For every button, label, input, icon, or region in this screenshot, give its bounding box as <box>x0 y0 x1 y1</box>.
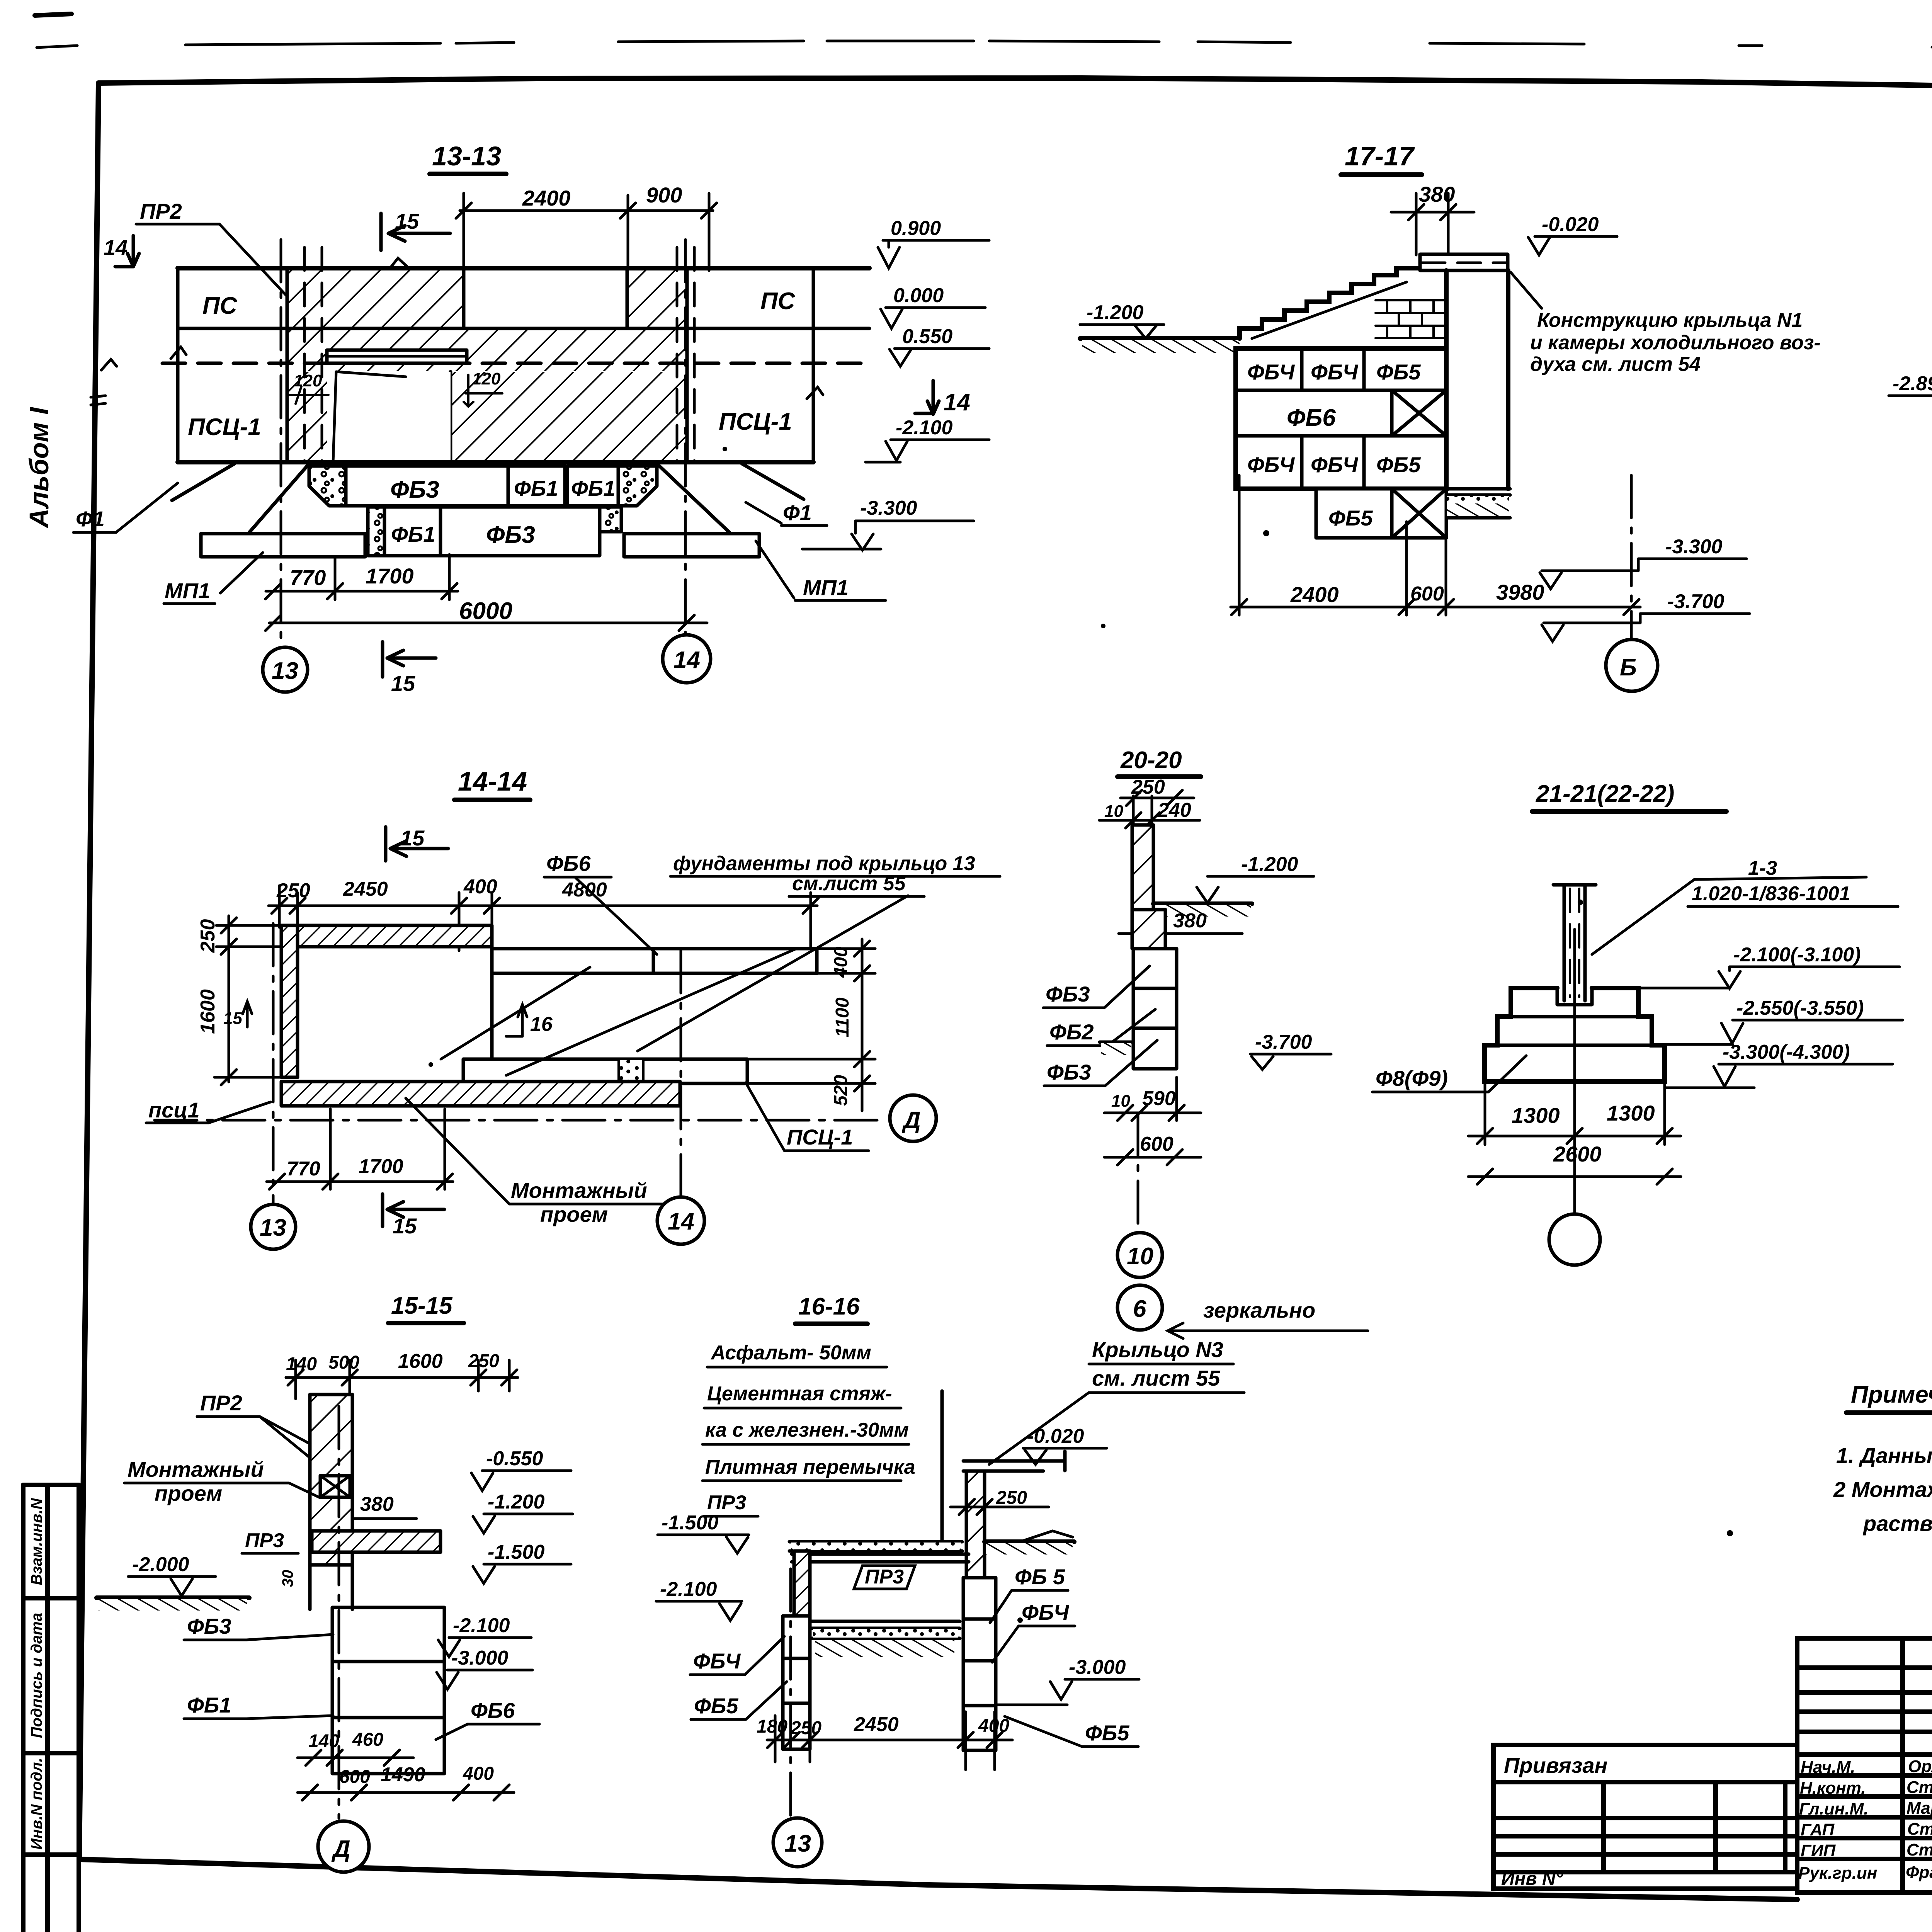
wall 15-15 hatched <box>310 1395 352 1565</box>
svg-text:1.020-1/836-1001: 1.020-1/836-1001 <box>1692 883 1850 905</box>
axis circle D (14-14) <box>890 1095 936 1141</box>
section cut mark 15 top <box>381 209 450 250</box>
svg-text:400: 400 <box>831 947 851 978</box>
stepped foundation (21-21) <box>1485 988 1665 1082</box>
svg-text:-2.100: -2.100 <box>660 1578 717 1600</box>
section mark 15 small left <box>223 1002 252 1028</box>
block row1 pebble right <box>618 466 657 506</box>
svg-text:псц1: псц1 <box>148 1098 200 1122</box>
svg-text:ФБЧ: ФБЧ <box>1247 360 1295 384</box>
label pscl left <box>146 1098 270 1123</box>
svg-text:Столярова: Столярова <box>1906 1840 1932 1859</box>
svg-text:ка с железнен.-30мм: ка с железнен.-30мм <box>705 1419 909 1441</box>
level mark -2.100(-3.100) (21-21) <box>1640 944 1900 988</box>
svg-text:1600: 1600 <box>398 1350 443 1372</box>
block FB3 row2 <box>440 507 600 556</box>
svg-text:см. лист 55: см. лист 55 <box>1092 1366 1220 1390</box>
block FB1 row1 <box>508 466 565 506</box>
dim 120 left <box>288 371 328 404</box>
axis circle D (15-15) <box>318 1821 369 1872</box>
axis dash 13 (14-14) <box>272 923 275 1202</box>
label FB6 (14-14) <box>544 851 611 877</box>
break mark on top line <box>384 258 409 275</box>
level line 0.000 <box>178 327 869 330</box>
svg-text:-1.200: -1.200 <box>1087 301 1144 324</box>
block FB1b row1 <box>567 466 618 506</box>
signature table roles <box>1798 1758 1877 1883</box>
section title 15-15 <box>388 1293 464 1323</box>
break mark left edge <box>171 347 186 359</box>
level mark -1.500 (16-16) <box>658 1512 749 1553</box>
svg-text:3980: 3980 <box>1496 580 1544 604</box>
axis line (21-21) <box>1573 929 1576 1213</box>
ground line right (20-20) <box>1153 904 1252 917</box>
dim 380 (15-15) <box>355 1493 417 1519</box>
label FB1 (15-15) <box>184 1693 333 1719</box>
svg-text:-3.000: -3.000 <box>451 1647 509 1669</box>
svg-text:Д: Д <box>331 1836 350 1862</box>
label PR3 box in plan (16-16) <box>854 1566 915 1589</box>
note Cement screed line1 <box>704 1383 901 1408</box>
svg-text:Сталярова: Сталярова <box>1906 1778 1932 1797</box>
svg-text:1-3: 1-3 <box>1748 857 1777 879</box>
svg-text:2450: 2450 <box>854 1713 899 1736</box>
ground line left <box>1080 336 1240 341</box>
svg-text:ПР2: ПР2 <box>200 1391 242 1415</box>
svg-text:ПСЦ-1: ПСЦ-1 <box>787 1125 853 1149</box>
svg-text:15-15: 15-15 <box>391 1293 453 1319</box>
svg-text:770: 770 <box>287 1158 320 1180</box>
svg-text:-3.700: -3.700 <box>1667 590 1725 613</box>
break mark on dash level line left <box>101 359 117 370</box>
left stamp rotated label Vzam.inv.N <box>28 1498 45 1585</box>
axis circle 10 <box>1117 1233 1162 1277</box>
svg-text:ГАП: ГАП <box>1801 1820 1835 1839</box>
left wall hatched (plan) <box>281 925 298 1077</box>
svg-text:-2.550(-3.550): -2.550(-3.550) <box>1736 997 1864 1019</box>
FB6 strip in plan <box>492 949 817 973</box>
svg-text:6: 6 <box>1133 1296 1146 1322</box>
svg-text:фундаменты под крыльцо 13: фундаменты под крыльцо 13 <box>673 852 975 875</box>
axis dash line 13 <box>280 240 282 646</box>
svg-text:Асфальт- 50мм: Асфальт- 50мм <box>710 1342 871 1364</box>
svg-text:ФБ3: ФБ3 <box>1047 1060 1091 1084</box>
left stamp column boxes <box>23 1485 79 1932</box>
svg-text:зеркально: зеркально <box>1203 1298 1315 1322</box>
svg-text:-3.300(-4.300): -3.300(-4.300) <box>1723 1041 1850 1063</box>
svg-text:380: 380 <box>1173 910 1207 932</box>
svg-text:13: 13 <box>784 1830 811 1857</box>
block FB1 row2 <box>384 507 440 556</box>
level mark -2.890 <box>1889 372 1932 417</box>
label FB3 (15-15) <box>184 1614 333 1640</box>
ground hatch left of column (20-20) <box>1100 1042 1132 1055</box>
svg-text:1700: 1700 <box>359 1155 403 1178</box>
svg-text:-2.100: -2.100 <box>896 417 953 439</box>
svg-text:6000: 6000 <box>459 598 512 624</box>
formwork dashed pair right <box>677 247 694 461</box>
break mark right edge <box>807 387 823 399</box>
axis circle 6 <box>1117 1285 1162 1330</box>
svg-text:120: 120 <box>294 371 322 390</box>
svg-text:13-13: 13-13 <box>432 141 501 171</box>
axis circle 13 (14-14) <box>251 1204 296 1249</box>
level mark -3.700 (20-20) <box>1250 1031 1331 1070</box>
svg-text:460: 460 <box>352 1730 383 1750</box>
level mark -1.200 (20-20) <box>1197 853 1314 903</box>
right vertical dim line (400 1100 520) <box>747 939 875 1111</box>
svg-text:МП1: МП1 <box>803 575 849 600</box>
left block column (16-16) <box>783 1616 810 1749</box>
section title 17-17 <box>1341 141 1422 175</box>
svg-text:Конструкцию крыльца N1: Конструкцию крыльца N1 <box>1537 309 1803 332</box>
svg-text:Инв.N подл.: Инв.N подл. <box>28 1758 45 1850</box>
svg-text:ФБ5: ФБ5 <box>1376 360 1421 384</box>
svg-text:Ф1: Ф1 <box>76 507 105 531</box>
svg-text:ПР3: ПР3 <box>865 1566 904 1588</box>
svg-text:Примечания: Примечания <box>1851 1381 1932 1408</box>
section arrow 14 right <box>915 381 970 416</box>
level mark -3.300(-4.300) (21-21) <box>1666 1041 1893 1088</box>
bottom dim line 17-17 <box>1231 475 1640 615</box>
svg-text:2 Монтажный проем заложить: 2 Монтажный проем заложить кирпичом на г… <box>1833 1477 1932 1502</box>
drawing frame left border <box>79 83 99 1859</box>
label PR3 and slab (15-15) <box>242 1529 440 1553</box>
label FB3 lower (20-20) <box>1044 1040 1157 1086</box>
row1 col dividers <box>1302 349 1364 390</box>
dim line 770/1700 <box>265 554 458 600</box>
porch slab top (16-16) <box>963 1451 1065 1471</box>
level mark -1.200 left <box>1080 301 1164 338</box>
svg-text:ФБ6: ФБ6 <box>471 1698 515 1723</box>
svg-text:Ф1: Ф1 <box>783 500 812 525</box>
svg-text:Взам.инв.N: Взам.инв.N <box>28 1498 45 1585</box>
wall bottom line <box>178 460 813 464</box>
svg-text:15: 15 <box>400 826 425 850</box>
svg-text:120: 120 <box>472 369 501 388</box>
level mark 0.550 <box>889 325 989 366</box>
svg-text:380: 380 <box>360 1493 394 1515</box>
label F8(F9) <box>1372 1056 1526 1092</box>
row dividers <box>1236 390 1446 436</box>
svg-text:Инв N°: Инв N° <box>1501 1869 1563 1889</box>
dim 600 (20-20) <box>1104 1133 1201 1165</box>
row2 FB6 <box>1287 390 1392 436</box>
top dimension line with ticks <box>456 193 717 270</box>
svg-text:ФБЧ: ФБЧ <box>1311 360 1359 384</box>
porch edge vertical <box>940 1391 944 1553</box>
svg-text:0.000: 0.000 <box>893 284 944 307</box>
level mark -3.300 pit <box>1540 536 1747 589</box>
svg-text:ПСЦ-1: ПСЦ-1 <box>188 414 261 440</box>
axis circle 14 <box>663 635 711 683</box>
svg-text:16-16: 16-16 <box>798 1293 860 1320</box>
right edge of section <box>812 268 815 462</box>
left margin vertical text Album I <box>24 406 54 529</box>
level mark -0.550 <box>471 1447 571 1491</box>
svg-text:14: 14 <box>673 647 700 673</box>
svg-text:10: 10 <box>1104 802 1123 821</box>
svg-text:-0.020: -0.020 <box>1542 213 1599 236</box>
stray specks <box>429 270 1932 1623</box>
row4 block FB5 <box>1316 489 1392 538</box>
level mark -1.500 (15-15) <box>473 1541 571 1583</box>
svg-text:15: 15 <box>223 1009 242 1028</box>
svg-text:Маргукец: Маргукец <box>1906 1799 1932 1818</box>
svg-text:духа см. лист 54: духа см. лист 54 <box>1530 353 1701 376</box>
svg-text:14-14: 14-14 <box>458 766 527 796</box>
section title 21-21(22-22) <box>1532 781 1726 811</box>
wall verticals below <box>310 1565 352 1609</box>
label FB6 (15-15) <box>436 1698 539 1740</box>
porch top slab <box>1420 254 1508 270</box>
dim 250 (16-16) <box>951 1488 1049 1515</box>
floor upper screed (16-16) <box>789 1542 969 1562</box>
PR2 end block <box>320 1476 350 1497</box>
svg-text:ПС: ПС <box>760 288 796 315</box>
level mark -2.550(-3.550) (21-21) <box>1656 997 1903 1044</box>
level mark 0.000 <box>881 284 985 328</box>
svg-text:-1.500: -1.500 <box>662 1512 719 1534</box>
level mark -3.300 <box>802 497 974 550</box>
svg-text:Цементная стяж-: Цементная стяж- <box>707 1383 892 1405</box>
svg-text:ФБЧ: ФБЧ <box>1247 452 1295 477</box>
svg-text:МП1: МП1 <box>165 578 210 603</box>
drawing frame top border <box>99 78 1932 100</box>
svg-text:1300: 1300 <box>1512 1103 1560 1128</box>
label FB2 (20-20) <box>1047 1009 1155 1046</box>
diagonal leader lines across plan <box>441 878 908 1075</box>
svg-text:770: 770 <box>290 565 326 590</box>
level mark -0.020 (16-16) <box>1023 1425 1107 1464</box>
section cut mark 15 bottom (14-14) <box>383 1194 444 1238</box>
ground right (16-16) <box>985 1531 1074 1554</box>
svg-text:Рук.гр.ин: Рук.гр.ин <box>1798 1864 1877 1883</box>
staircase outline <box>1240 268 1422 338</box>
svg-text:17-17: 17-17 <box>1345 141 1415 171</box>
dash level line <box>162 362 869 365</box>
haunch F1 left lines <box>172 464 309 532</box>
axis dash (20-20) <box>1137 1113 1139 1231</box>
svg-text:Плитная перемычка: Плитная перемычка <box>705 1456 915 1478</box>
label FB4 left (16-16) <box>690 1636 784 1675</box>
svg-text:растворе.: растворе. <box>1862 1511 1932 1536</box>
svg-text:Орлов: Орлов <box>1908 1757 1932 1776</box>
label PR2 (15-15) <box>197 1391 324 1469</box>
left wall hatched (16-16) <box>794 1551 810 1616</box>
svg-text:ФБ 5: ФБ 5 <box>1015 1565 1065 1589</box>
svg-text:Крыльцо N3: Крыльцо N3 <box>1092 1337 1223 1362</box>
top scan artifact dashed line <box>37 41 1932 51</box>
wall top line <box>178 266 869 270</box>
dim 380 <box>1391 182 1474 255</box>
svg-text:-3.300: -3.300 <box>1665 536 1723 558</box>
wall lower wide (20-20) <box>1132 910 1165 949</box>
svg-text:-2.100: -2.100 <box>453 1614 510 1637</box>
axis circle B <box>1606 639 1658 691</box>
svg-text:30: 30 <box>279 1570 296 1587</box>
svg-text:900: 900 <box>646 183 682 207</box>
left stamp rotated label Inv.N podl. <box>28 1758 45 1850</box>
svg-text:Ф8(Ф9): Ф8(Ф9) <box>1376 1066 1448 1090</box>
svg-text:21-21(22-22): 21-21(22-22) <box>1536 781 1674 807</box>
left stamp rotated label Podpis i data <box>28 1613 45 1738</box>
block row2 pebble strip <box>368 507 384 556</box>
wall hatched areas <box>287 270 464 328</box>
svg-text:520: 520 <box>831 1075 851 1106</box>
level mark -2.100 (15-15) <box>438 1614 531 1657</box>
bottom strip in plan <box>463 1059 747 1083</box>
svg-text:-1.200: -1.200 <box>1241 853 1298 876</box>
label F1 right <box>746 500 827 526</box>
label 1-3 <box>1592 857 1866 954</box>
svg-text:-2.890: -2.890 <box>1893 372 1932 395</box>
row3 col dividers <box>1302 436 1364 489</box>
leader to note text <box>1511 272 1542 308</box>
svg-text:Франченко: Франченко <box>1906 1863 1932 1882</box>
svg-text:16: 16 <box>530 1013 553 1036</box>
notes title Primechaniya <box>1846 1381 1932 1413</box>
label PSC-1 right <box>746 1083 869 1151</box>
level mark 0.900 <box>878 217 989 268</box>
axis dash line 14 <box>684 240 687 634</box>
dim line top 14-14 <box>269 886 818 951</box>
section mark 16 <box>506 1005 553 1036</box>
level mark -2.100 <box>866 417 989 462</box>
brick hatch patch <box>1376 300 1445 338</box>
dims 10 590 (20-20) <box>1104 1077 1201 1121</box>
floor lower (16-16) <box>811 1621 960 1657</box>
svg-text:240: 240 <box>1157 799 1191 821</box>
svg-text:1300: 1300 <box>1607 1101 1655 1125</box>
pit wall verticals <box>1446 270 1508 489</box>
axis circle empty (21-21) <box>1549 1214 1600 1265</box>
svg-text:10: 10 <box>1111 1092 1130 1111</box>
footing slab MP1 left <box>201 534 365 557</box>
svg-text:проем: проем <box>155 1481 222 1505</box>
top wall hatched (plan) <box>281 925 492 947</box>
svg-text:-0.550: -0.550 <box>486 1447 543 1470</box>
level mark -0.020 <box>1528 213 1617 255</box>
axis dash (16-16) <box>789 1569 792 1816</box>
svg-text:-3.300: -3.300 <box>860 497 917 519</box>
svg-text:14: 14 <box>668 1208 694 1235</box>
formwork dashed pair left <box>304 247 322 461</box>
label Krylco N3 <box>989 1337 1244 1464</box>
note Plitnaya peremychka <box>702 1456 915 1481</box>
section title 13-13 <box>430 141 506 174</box>
section cut mark 15 top (14-14) <box>386 826 448 861</box>
svg-text:ФБ3: ФБ3 <box>390 476 439 503</box>
small dim 30 rotated <box>279 1570 296 1587</box>
bottom wall hatched (plan) <box>281 1082 680 1106</box>
svg-text:0.900: 0.900 <box>891 217 941 240</box>
label FB5 left (16-16) <box>691 1682 787 1719</box>
level mark -2.000 ground left <box>97 1553 249 1611</box>
svg-text:13: 13 <box>272 658 298 684</box>
footing slab MP1 right <box>624 534 759 557</box>
axis circle 13 <box>263 647 308 692</box>
level mark -3.700 pit <box>1542 590 1750 641</box>
svg-text:ПС: ПС <box>202 293 238 319</box>
section title 14-14 <box>454 766 530 800</box>
svg-text:-2.000: -2.000 <box>132 1553 189 1576</box>
svg-text:ФБ6: ФБ6 <box>546 851 591 876</box>
svg-text:600: 600 <box>1140 1133 1173 1155</box>
label fundamenty pod krylco 13 <box>670 852 1000 896</box>
svg-text:Подпись и дата: Подпись и дата <box>28 1613 45 1738</box>
label MP1 left <box>164 553 263 604</box>
svg-text:2600: 2600 <box>1553 1142 1602 1166</box>
left edge of section <box>176 268 180 462</box>
label MP1 right <box>756 541 886 600</box>
svg-text:-2.100(-3.100): -2.100(-3.100) <box>1733 944 1861 966</box>
bottom dims 180 250 2450 400 (16-16) <box>757 1712 1012 1770</box>
svg-text:ФБ2: ФБ2 <box>1049 1020 1094 1044</box>
axis circle 14 (14-14) <box>657 1197 704 1244</box>
svg-text:250: 250 <box>197 919 219 953</box>
dim 380 (20-20) <box>1119 910 1242 934</box>
wall area outline <box>287 268 687 462</box>
svg-text:2400: 2400 <box>1290 582 1339 607</box>
svg-text:15: 15 <box>393 1214 417 1238</box>
svg-text:Нач.М.: Нач.М. <box>1801 1758 1855 1777</box>
signature table names <box>1906 1757 1932 1882</box>
svg-text:-3.000: -3.000 <box>1069 1656 1126 1679</box>
svg-text:ФБ5: ФБ5 <box>694 1694 738 1718</box>
stray mark top-left <box>35 14 71 15</box>
svg-text:Монтажный: Монтажный <box>128 1457 264 1481</box>
svg-text:-3.700: -3.700 <box>1255 1031 1312 1053</box>
dims 1300 1300 (21-21) <box>1468 1084 1681 1145</box>
haunch F1 right lines <box>657 464 804 532</box>
dim 10 240 (20-20) <box>1099 796 1200 850</box>
svg-text:и камеры холодильного воз-: и камеры холодильного воз- <box>1530 332 1821 354</box>
row4 X box <box>1392 489 1446 538</box>
svg-text:0.550: 0.550 <box>902 325 952 348</box>
svg-text:ФБ1: ФБ1 <box>391 522 435 546</box>
svg-text:250: 250 <box>468 1351 499 1371</box>
svg-text:ФБЧ: ФБЧ <box>1022 1600 1070 1624</box>
svg-text:ФБЧ: ФБЧ <box>1311 452 1359 477</box>
post stakan (21-21) <box>1553 885 1596 1001</box>
level mark -1.200 (15-15) <box>473 1491 573 1533</box>
svg-text:14: 14 <box>104 235 128 260</box>
svg-text:см.лист 55: см.лист 55 <box>792 872 906 895</box>
section title 16-16 <box>795 1293 867 1324</box>
svg-text:-0.020: -0.020 <box>1027 1425 1084 1447</box>
note line2 <box>702 1419 909 1444</box>
svg-text:2450: 2450 <box>343 878 388 900</box>
svg-text:Привязан: Привязан <box>1504 1753 1607 1777</box>
svg-text:ФБ5: ФБ5 <box>1328 506 1373 530</box>
svg-text:-1.500: -1.500 <box>488 1541 545 1563</box>
svg-text:500: 500 <box>328 1352 359 1373</box>
section cut mark 15 bottom <box>383 642 436 696</box>
bottom dims 600 1490 400 (15-15) <box>298 1764 514 1800</box>
label Montazhny proem (15-15) <box>124 1457 320 1505</box>
block column (20-20) <box>1133 949 1177 1069</box>
socket (21-21) <box>1497 988 1652 1045</box>
svg-text:ФБ5: ФБ5 <box>1376 452 1421 477</box>
label F1 left <box>73 483 178 532</box>
svg-text:140: 140 <box>308 1731 339 1752</box>
svg-text:ФБ3: ФБ3 <box>187 1614 231 1638</box>
block FB3 row1 <box>346 466 508 506</box>
level mark -3.000 (15-15) <box>437 1647 532 1689</box>
top dims 140 500 1600 250 <box>286 1350 518 1410</box>
svg-text:1. Данный лист см. совмест: 1. Данный лист см. совместно с листами 1… <box>1836 1443 1932 1468</box>
